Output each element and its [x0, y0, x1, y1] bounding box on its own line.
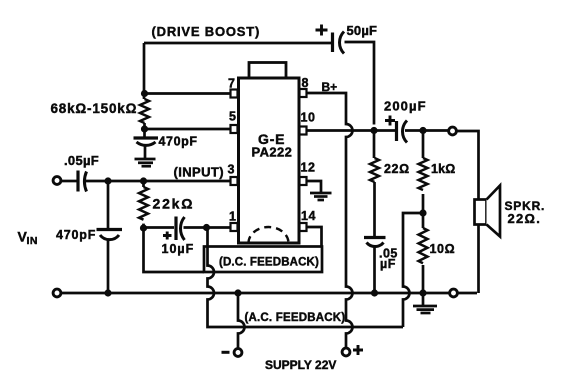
svg-text:3: 3 — [228, 163, 235, 177]
svg-text:50µF: 50µF — [347, 23, 378, 38]
svg-text:22Ω.: 22Ω. — [508, 211, 542, 226]
svg-text:1: 1 — [229, 210, 236, 224]
svg-text:22kΩ: 22kΩ — [153, 196, 195, 212]
svg-text:7: 7 — [228, 77, 235, 91]
svg-text:(DRIVE BOOST): (DRIVE BOOST) — [152, 24, 261, 39]
svg-text:IN: IN — [27, 235, 38, 247]
svg-text:12: 12 — [301, 161, 316, 175]
svg-text:µF: µF — [380, 257, 396, 271]
svg-text:8: 8 — [302, 76, 309, 90]
svg-text:10µF: 10µF — [162, 242, 195, 256]
svg-text:SUPPLY 22V: SUPPLY 22V — [265, 358, 336, 372]
svg-text:14: 14 — [301, 209, 316, 223]
svg-text:(D.C. FEEDBACK): (D.C. FEEDBACK) — [219, 257, 319, 269]
svg-text:(INPUT): (INPUT) — [174, 165, 224, 180]
svg-text:22Ω: 22Ω — [384, 162, 410, 176]
svg-text:B+: B+ — [322, 80, 338, 94]
svg-text:10: 10 — [301, 111, 316, 125]
svg-text:1kΩ: 1kΩ — [431, 162, 456, 176]
svg-text:.05µF: .05µF — [64, 153, 99, 168]
svg-text:68kΩ-150kΩ: 68kΩ-150kΩ — [51, 101, 138, 116]
svg-text:470pF: 470pF — [159, 135, 198, 149]
svg-text:(A.C. FEEDBACK): (A.C. FEEDBACK) — [245, 312, 346, 324]
svg-text:470pF: 470pF — [56, 228, 96, 242]
svg-text:200µF: 200µF — [384, 99, 427, 114]
svg-text:5: 5 — [229, 110, 236, 124]
svg-text:PA222: PA222 — [252, 145, 293, 160]
svg-text:10Ω: 10Ω — [430, 242, 456, 256]
